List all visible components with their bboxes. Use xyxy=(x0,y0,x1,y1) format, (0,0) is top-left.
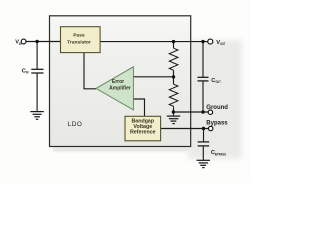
svg-text:Error: Error xyxy=(112,79,124,85)
svg-text:BYPASS: BYPASS xyxy=(215,152,226,157)
svg-text:LDO: LDO xyxy=(68,121,83,128)
svg-text:OUT: OUT xyxy=(216,79,222,84)
svg-text:IN: IN xyxy=(26,70,29,75)
svg-text:Bypass: Bypass xyxy=(206,120,228,126)
svg-text:Pass: Pass xyxy=(73,33,85,39)
svg-text:Amplifier: Amplifier xyxy=(109,85,131,91)
svg-text:Ground: Ground xyxy=(206,105,228,111)
svg-text:Reference: Reference xyxy=(130,129,156,135)
svg-text:Transistor: Transistor xyxy=(67,39,91,45)
svg-text:IN: IN xyxy=(19,41,22,46)
svg-text:OUT: OUT xyxy=(220,41,226,46)
